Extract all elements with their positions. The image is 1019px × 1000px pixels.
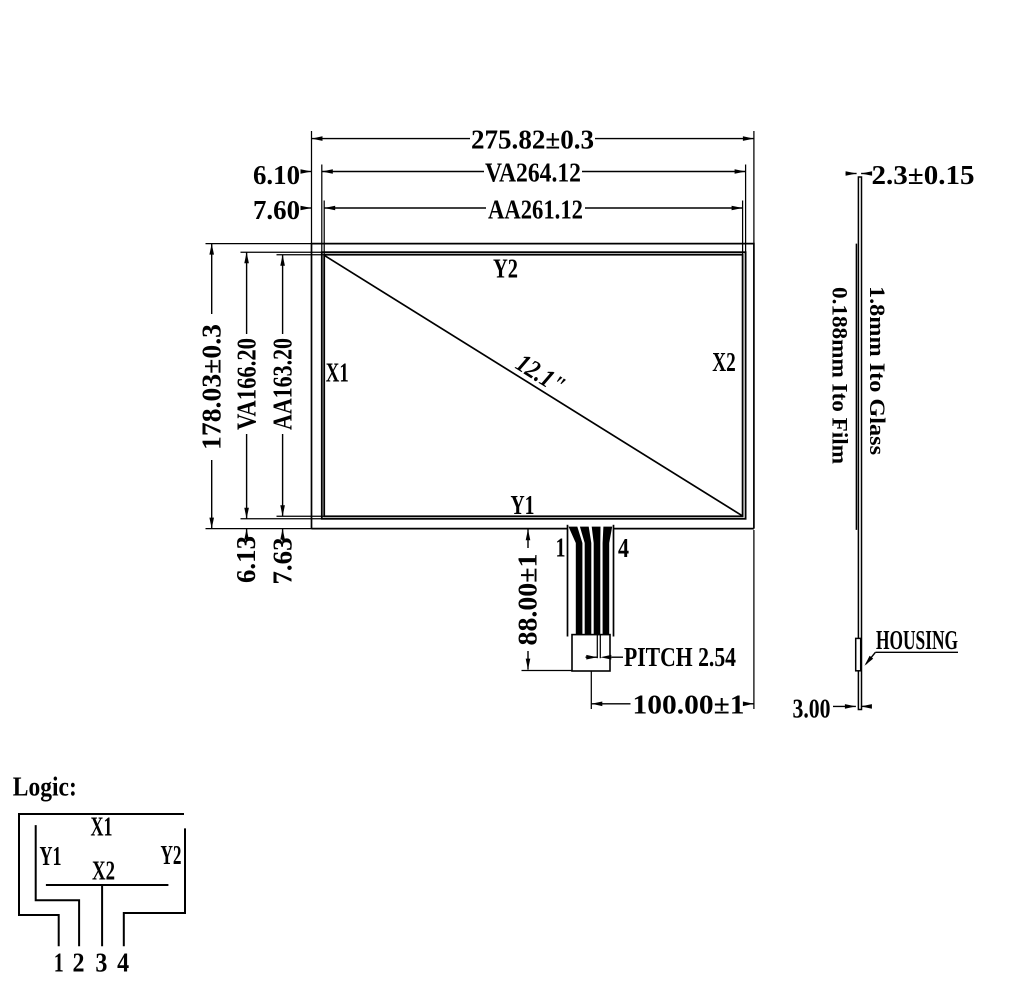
svg-text:Logic:: Logic: <box>13 772 77 802</box>
pitch mark line 1 <box>596 635 598 659</box>
FPC tail right side <box>613 525 615 637</box>
svg-text:Y2: Y2 <box>493 254 518 284</box>
pitch arrows <box>586 656 598 658</box>
svg-text:4: 4 <box>618 533 629 563</box>
svg-text:275.82±0.3: 275.82±0.3 <box>471 125 594 155</box>
svg-text:3.00: 3.00 <box>793 694 831 724</box>
dimension VA264.12 line <box>322 171 484 173</box>
extension line outer left-top <box>206 243 312 245</box>
housing block <box>856 638 861 670</box>
dimension VA166.20 line <box>246 252 248 334</box>
dimension 178.03 line <box>211 244 213 314</box>
dimension 7.60 <box>301 207 312 209</box>
svg-text:1: 1 <box>556 533 566 563</box>
dimension 6.13 <box>246 529 248 541</box>
svg-text:PITCH 2.54: PITCH 2.54 <box>624 642 736 672</box>
svg-text:AA163.20: AA163.20 <box>268 338 298 430</box>
FPC conductor stripe 2 <box>580 527 591 636</box>
extension line VA top-left <box>321 165 323 253</box>
dimension AA163.20 line <box>282 255 284 334</box>
side view film layer <box>855 244 857 530</box>
extension line outer top-left <box>311 131 313 243</box>
svg-text:X2: X2 <box>712 347 736 377</box>
extension line VA top-right <box>745 165 747 253</box>
extension line AA left-top <box>277 254 325 256</box>
panel outline rect <box>312 244 754 529</box>
svg-text:2: 2 <box>73 948 85 978</box>
VA area rect <box>322 252 746 519</box>
svg-text:3: 3 <box>95 948 107 978</box>
svg-text:X2: X2 <box>92 855 115 885</box>
svg-text:2.3±0.15: 2.3±0.15 <box>872 160 975 190</box>
svg-text:178.03±0.3: 178.03±0.3 <box>197 324 227 450</box>
extension line AA left-bottom <box>277 515 325 517</box>
extension line outer top-right <box>753 131 755 243</box>
dimension AA261.12 line <box>324 207 486 209</box>
housing leader line <box>875 651 958 653</box>
connector centre drop line <box>590 671 592 709</box>
side view glass profile <box>858 177 861 710</box>
logic Y1 trace <box>36 825 79 946</box>
dimension 88.00 line <box>527 529 529 548</box>
logic X2 trace <box>46 885 168 946</box>
connector box <box>572 635 610 671</box>
extension line VA left-top <box>241 251 322 253</box>
extension line panel right-bottom <box>753 530 755 709</box>
dimension 7.63 <box>282 529 284 541</box>
svg-text:Y1: Y1 <box>40 841 62 871</box>
svg-text:X1: X1 <box>91 811 113 841</box>
AA area rect <box>324 255 742 517</box>
svg-text:6.13: 6.13 <box>231 536 261 583</box>
FPC tail left side <box>567 525 569 637</box>
dimension 6.10 <box>301 171 312 173</box>
logic Y2 trace <box>124 828 185 946</box>
svg-text:1: 1 <box>54 948 64 978</box>
extension line AA top-left <box>323 201 325 255</box>
svg-text:1.8mm Ito Glass: 1.8mm Ito Glass <box>865 286 890 455</box>
panel bottom edge right segment <box>614 528 754 530</box>
diagonal line <box>324 255 742 516</box>
dimension 275.82 line <box>312 138 471 140</box>
svg-text:0.188mm Ito Film: 0.188mm Ito Film <box>828 287 853 464</box>
FPC conductor stripe 1 <box>569 527 583 636</box>
svg-text:VA166.20: VA166.20 <box>232 338 262 430</box>
svg-text:7.60: 7.60 <box>253 195 300 225</box>
extension line AA top-right <box>742 201 744 255</box>
extension line VA left-bottom <box>241 518 322 520</box>
svg-text:88.00±1: 88.00±1 <box>513 554 543 646</box>
svg-text:AA261.12: AA261.12 <box>488 195 583 225</box>
panel bottom edge left segment <box>312 528 568 530</box>
dimension 3.00 <box>833 705 856 707</box>
svg-text:7.63: 7.63 <box>268 538 298 585</box>
svg-text:Y1: Y1 <box>511 490 535 520</box>
FPC conductor stripe 4 <box>603 527 613 636</box>
svg-text:HOUSING: HOUSING <box>876 625 958 655</box>
FPC conductor stripe 3 <box>592 527 601 636</box>
svg-text:6.10: 6.10 <box>253 160 300 190</box>
svg-text:100.00±1: 100.00±1 <box>633 690 745 720</box>
extension line outer left-bottom <box>206 528 312 530</box>
svg-text:Y2: Y2 <box>161 840 182 870</box>
dimension 2.3 <box>846 173 857 175</box>
dimension 100.00 line <box>591 703 630 705</box>
svg-text:4: 4 <box>117 948 129 978</box>
logic X1 trace <box>19 814 184 946</box>
dimension 88.00 extension <box>522 670 573 672</box>
pitch mark line 2 <box>599 635 601 659</box>
svg-text:VA264.12: VA264.12 <box>485 158 581 188</box>
svg-text:X1: X1 <box>326 358 349 388</box>
